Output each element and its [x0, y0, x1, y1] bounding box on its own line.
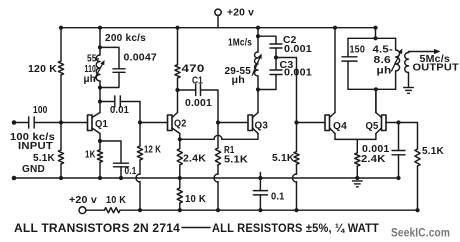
svg-text:ALL TRANSISTORS 2N 2714: ALL TRANSISTORS 2N 2714 [14, 223, 180, 235]
svg-text:Q5: Q5 [366, 120, 379, 132]
svg-text:4.5-: 4.5- [373, 45, 394, 56]
svg-text:5.1K: 5.1K [33, 153, 55, 164]
svg-text:12 K: 12 K [144, 145, 161, 156]
svg-text:Q4: Q4 [333, 120, 347, 132]
svg-text:470: 470 [182, 63, 205, 75]
svg-text:1K: 1K [85, 150, 96, 161]
svg-text:0.01: 0.01 [110, 105, 129, 116]
svg-text:μh: μh [232, 75, 246, 86]
svg-text:5.1K: 5.1K [422, 146, 444, 157]
svg-text:120 K: 120 K [28, 64, 57, 75]
svg-text:INPUT: INPUT [18, 141, 54, 152]
svg-text:10 K: 10 K [185, 194, 206, 205]
svg-text:0.1: 0.1 [271, 192, 285, 203]
svg-text:100: 100 [33, 105, 48, 116]
svg-text:GND: GND [22, 164, 45, 175]
svg-text:Q2: Q2 [174, 118, 187, 130]
svg-text:10 K: 10 K [106, 195, 126, 206]
svg-text:+20 v: +20 v [69, 195, 97, 206]
svg-text:0.1: 0.1 [125, 166, 137, 177]
svg-text:2.4K: 2.4K [183, 154, 206, 165]
svg-text:μh: μh [84, 74, 97, 85]
svg-text:5.1K: 5.1K [272, 153, 295, 164]
svg-text:Q1: Q1 [95, 118, 108, 130]
svg-text:8.6: 8.6 [374, 55, 392, 66]
svg-text:0.001: 0.001 [284, 44, 312, 55]
svg-text:200 kc/s: 200 kc/s [105, 33, 146, 44]
svg-text:C1: C1 [192, 76, 203, 87]
svg-text:μh: μh [377, 66, 392, 77]
svg-text:Q3: Q3 [255, 120, 269, 132]
svg-text:ALL RESISTORS ±5%, ¼ WATT: ALL RESISTORS ±5%, ¼ WATT [212, 223, 379, 235]
svg-text:0.001: 0.001 [284, 68, 312, 79]
svg-text:55-: 55- [87, 54, 100, 65]
svg-text:0.0047: 0.0047 [124, 53, 158, 64]
svg-text:+20 v: +20 v [227, 8, 254, 19]
svg-text:150: 150 [350, 45, 366, 56]
svg-text:OUTPUT: OUTPUT [413, 63, 460, 74]
svg-text:SeekIC.com: SeekIC.com [391, 226, 450, 240]
svg-text:5.1K: 5.1K [224, 155, 248, 166]
svg-text:2.4K: 2.4K [361, 154, 386, 165]
svg-text:0.001: 0.001 [185, 98, 212, 109]
svg-text:1Mc/s: 1Mc/s [228, 38, 252, 49]
